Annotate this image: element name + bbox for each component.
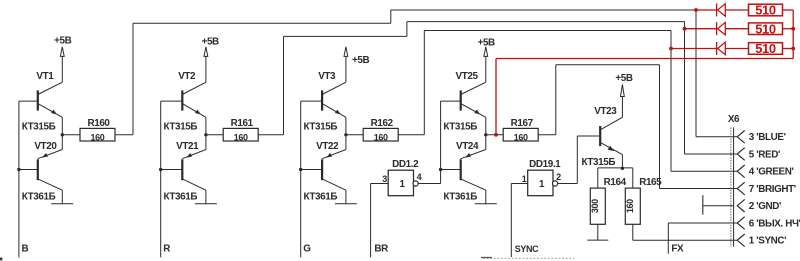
svg-text:FX: FX — [671, 244, 684, 255]
svg-text:4 'GREEN': 4 'GREEN' — [749, 167, 794, 178]
node B emitter junction — [61, 133, 64, 136]
transistor VT3 КТ315Б NPN — [301, 71, 346, 135]
svg-text:160: 160 — [91, 132, 105, 142]
svg-text:1 'SYNC': 1 'SYNC' — [749, 236, 786, 247]
transistor VT23 КТ315Б NPN — [582, 106, 623, 168]
resistor 510 row 2 — [749, 23, 783, 35]
svg-text:160: 160 — [374, 132, 388, 142]
pin 2 'GND' of X6 — [737, 199, 781, 212]
svg-text:160: 160 — [234, 132, 248, 142]
+5V supply B — [54, 35, 71, 82]
wire red right bus — [792, 10, 794, 59]
svg-text:6 'ВЫХ. НЧ': 6 'ВЫХ. НЧ' — [749, 218, 800, 229]
transistor VT21 КТ361Б PNP — [161, 135, 206, 204]
svg-text:КТ315Б: КТ315Б — [22, 122, 56, 133]
svg-text:+5B: +5B — [54, 35, 71, 46]
svg-text:+5B: +5B — [202, 37, 219, 48]
ground terminal of VT20 — [51, 203, 73, 205]
input rail B — [18, 101, 20, 257]
svg-text:КТ361Б: КТ361Б — [164, 191, 198, 202]
wire R node to resistor — [206, 134, 223, 136]
junction bright tap on R line — [683, 27, 687, 31]
svg-text:VT22: VT22 — [316, 141, 339, 152]
wire red row 1 — [696, 9, 717, 11]
input rail G — [300, 101, 302, 257]
input rail SYNC — [510, 184, 512, 258]
pin 3 'BLUE' of X6 — [737, 131, 785, 144]
wire GND stub to pin 2 — [703, 195, 734, 215]
svg-text:+5B: +5B — [615, 73, 632, 84]
svg-text:1: 1 — [522, 174, 527, 184]
svg-text:5 'RED': 5 'RED' — [749, 149, 780, 160]
svg-text:2: 2 — [556, 172, 561, 182]
junction DD1.2 base rail at VT24 — [439, 168, 442, 171]
svg-text:DD19.1: DD19.1 — [529, 159, 561, 170]
wire red return bus to BR node — [496, 59, 793, 135]
connector X6 spine — [731, 128, 734, 247]
wire BR rail to DD1.2 input — [371, 183, 389, 185]
wire 510 to right bus row 3 — [783, 48, 794, 50]
svg-text:DD1.2: DD1.2 — [392, 159, 419, 170]
resistor R161 160 — [223, 128, 258, 141]
+5V supply BR — [478, 38, 495, 83]
transistor VT20 КТ361Б PNP — [19, 135, 62, 204]
wire B output to connector pin 3 — [115, 10, 737, 137]
wire red row 2 — [685, 28, 717, 30]
dotted remnant line — [481, 257, 574, 260]
resistor R160 160 — [80, 128, 115, 141]
svg-text:КТ315Б: КТ315Б — [164, 122, 198, 133]
transistor VT25 КТ315Б NPN — [441, 71, 486, 135]
wire G node to resistor — [346, 134, 363, 136]
wire diode to resistor row 3 — [725, 48, 748, 50]
resistor 510 row 1 — [749, 4, 783, 16]
svg-text:160: 160 — [514, 132, 528, 142]
svg-text:КТ361Б: КТ361Б — [22, 191, 56, 202]
svg-text:3: 3 — [382, 174, 387, 184]
+5V supply VT23 — [615, 73, 632, 117]
svg-text:BR: BR — [374, 244, 388, 255]
svg-text:VT20: VT20 — [34, 141, 57, 152]
svg-text:X6: X6 — [728, 114, 740, 125]
svg-text:КТ315Б: КТ315Б — [304, 122, 338, 133]
wire 510 to right bus row 2 — [783, 28, 794, 30]
diode VD R — [716, 22, 718, 35]
transistor VT24 КТ361Б PNP — [441, 135, 486, 204]
svg-text:300: 300 — [590, 199, 600, 213]
svg-text:VT25: VT25 — [456, 71, 479, 82]
wire diode to resistor row 1 — [725, 9, 748, 11]
junction red at BR node — [494, 133, 498, 137]
wire SYNC rail to DD19.1 input — [511, 183, 527, 185]
resistor R162 160 — [363, 128, 398, 141]
node G emitter junction — [344, 133, 347, 136]
wire BR node to R167 — [486, 134, 503, 136]
svg-text:160: 160 — [625, 199, 635, 213]
diode VD B — [716, 3, 718, 16]
ground terminal of VT24 — [475, 203, 497, 205]
pin 6 'ВЫХ. НЧ' of X6 — [737, 217, 800, 230]
pin 7 'BRIGHT' of X6 — [737, 182, 796, 195]
node BR emitter junction — [484, 133, 487, 136]
junction on rail G at VT22 base — [299, 168, 302, 171]
input rail R — [160, 101, 162, 257]
svg-text:VT1: VT1 — [36, 71, 54, 82]
svg-text:510: 510 — [755, 41, 776, 56]
svg-text:7 'BRIGHT': 7 'BRIGHT' — [749, 184, 796, 195]
svg-text:R160: R160 — [87, 118, 110, 129]
wire DD1.2 output to VT25/VT24 bases — [418, 101, 440, 183]
wire bottom-left corner mark — [0, 258, 2, 261]
pin 4 'GREEN' of X6 — [737, 165, 793, 178]
pin 5 'RED' of X6 — [737, 148, 780, 161]
transistor VT1 КТ315Б NPN — [19, 71, 62, 135]
svg-text:+5B: +5B — [352, 55, 369, 66]
wire DD19.1 output to VT23 base — [558, 136, 600, 184]
svg-text:1: 1 — [399, 179, 405, 190]
transistor VT22 КТ361Б PNP — [301, 135, 346, 204]
svg-text:1: 1 — [539, 179, 545, 190]
ground terminal of VT22 — [335, 203, 357, 205]
op-amp U DD19.1 inverter pins 1-2 — [528, 170, 553, 196]
svg-text:R165: R165 — [639, 177, 662, 188]
wire VT23 emitter to R164/R165 — [598, 167, 633, 169]
resistor R167 160 — [503, 128, 538, 141]
svg-text:VT23: VT23 — [594, 106, 617, 117]
svg-text:R162: R162 — [371, 118, 394, 129]
svg-text:VT21: VT21 — [176, 141, 199, 152]
wire red row 3 — [671, 48, 717, 50]
ground terminal of VT21 — [195, 203, 217, 205]
wire G output to connector pin 4 — [398, 31, 737, 172]
junction on rail R at VT21 base — [159, 168, 162, 171]
svg-text:2 'GND': 2 'GND' — [749, 201, 781, 212]
svg-text:G: G — [303, 244, 311, 255]
node VT23 emitter junction — [621, 167, 624, 170]
junction bright tap on G line — [669, 47, 673, 51]
junction on rail B at VT20 base — [17, 168, 20, 171]
svg-text:VT3: VT3 — [318, 71, 336, 82]
junction red bus row 3 — [791, 47, 795, 51]
svg-text:КТ361Б: КТ361Б — [443, 191, 477, 202]
wire R output to connector pin 5 — [258, 22, 737, 154]
+5V supply G — [344, 47, 369, 82]
svg-text:B: B — [22, 244, 29, 255]
svg-text:КТ315Б: КТ315Б — [443, 122, 477, 133]
wire B node to resistor — [62, 134, 80, 136]
transistor VT2 КТ315Б NPN — [161, 71, 206, 135]
ground terminal of R164 — [587, 239, 608, 241]
svg-text:SYNC: SYNC — [515, 244, 539, 254]
svg-text:510: 510 — [755, 21, 776, 36]
junction red bus row 2 — [791, 27, 795, 31]
wire diode to resistor row 2 — [725, 28, 748, 30]
wire FX to connector pin 6 — [668, 223, 737, 254]
wire 510 to right bus row 1 — [783, 9, 794, 11]
svg-text:VT24: VT24 — [456, 141, 479, 152]
input rail BR — [370, 184, 372, 258]
resistor R165 160 — [625, 168, 662, 240]
resistor R164 300 — [590, 168, 627, 240]
+5V supply R — [202, 37, 219, 83]
wire R167 to BRIGHT drop — [538, 65, 737, 189]
op-amp U DD1.2 inverter pins 3-4 — [388, 170, 413, 196]
svg-text:R161: R161 — [231, 118, 254, 129]
svg-text:R: R — [163, 244, 170, 255]
svg-text:4: 4 — [417, 172, 422, 182]
svg-text:510: 510 — [755, 3, 776, 18]
svg-text:R164: R164 — [604, 177, 627, 188]
svg-text:КТ361Б: КТ361Б — [304, 191, 338, 202]
junction bright tap on B line — [694, 8, 698, 12]
svg-text:R167: R167 — [511, 118, 534, 129]
resistor 510 row 3 — [749, 43, 783, 55]
pin 1 'SYNC' of X6 — [737, 234, 786, 247]
svg-text:3 'BLUE': 3 'BLUE' — [749, 132, 786, 143]
svg-text:КТ315Б: КТ315Б — [582, 157, 616, 168]
svg-text:VT2: VT2 — [178, 71, 196, 82]
diode VD G — [716, 42, 718, 55]
node R emitter junction — [204, 133, 207, 136]
wire R165 to connector pin 1 SYNC — [633, 239, 737, 241]
